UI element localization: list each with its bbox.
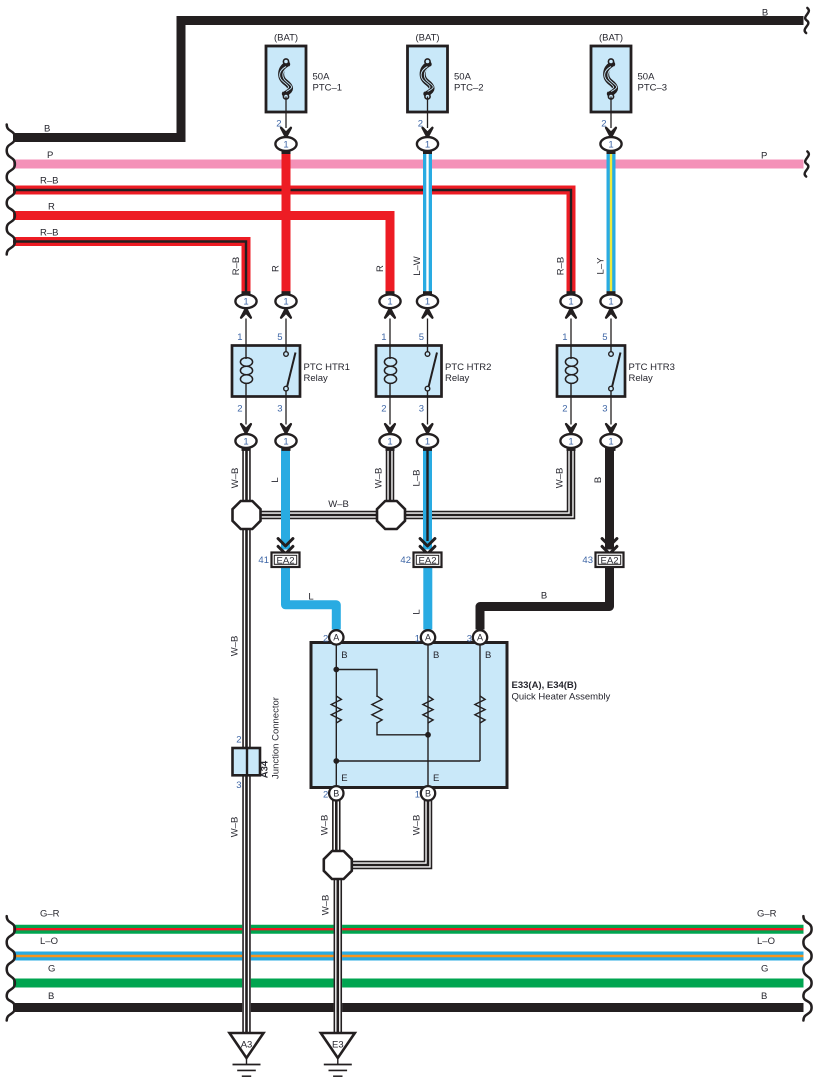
relay pin 2 label below at x=571.0	[562, 404, 567, 415]
fuse 50A PTC-1	[266, 46, 306, 112]
connector EA2-42	[414, 539, 442, 567]
svg-text:(BAT): (BAT)	[599, 33, 623, 44]
svg-text:Relay: Relay	[629, 373, 654, 384]
wire R-B bus 2 (to relay1 pin1)	[13, 242, 246, 296]
svg-text:E3: E3	[332, 1040, 344, 1051]
svg-text:P: P	[761, 151, 767, 162]
wire L-B relay2 pin3 to EA2-42	[423, 448, 432, 550]
svg-text:1: 1	[608, 139, 613, 150]
heater name label	[512, 680, 611, 703]
wire P bus	[13, 160, 804, 169]
svg-text:R–B: R–B	[231, 257, 242, 275]
connector ellipse 1 at x=571.0 below relay	[560, 397, 581, 451]
svg-text:L–O: L–O	[40, 936, 58, 947]
wire W-B relay1 pin2 to junction J1	[243, 448, 250, 502]
svg-text:1: 1	[237, 332, 242, 343]
svg-text:A: A	[333, 633, 339, 643]
wire W-B heater 2(B) to junction J3	[333, 800, 340, 852]
svg-text:1: 1	[568, 297, 573, 308]
label L-O right	[757, 936, 775, 947]
connector EA2-41	[272, 539, 300, 567]
label W-B below A34	[229, 817, 240, 838]
connector 1(A)	[421, 630, 435, 644]
heater internal wire from 3(A)	[479, 643, 481, 762]
label W-B octagon link	[328, 499, 349, 510]
wire G bus	[13, 979, 804, 988]
label B relay3 pin3	[593, 477, 604, 483]
connector ellipse 1 below fuse PTC-1	[275, 137, 296, 151]
svg-text:3: 3	[419, 404, 424, 415]
junction J2 (octagon)	[377, 501, 405, 529]
wire L relay1 pin3 to EA2-41 and heater 2(A)	[286, 448, 337, 630]
svg-text:E: E	[433, 773, 439, 784]
label W-B relay2 pin2	[374, 468, 385, 489]
svg-text:1: 1	[568, 436, 573, 447]
connector 1(B)	[421, 786, 435, 800]
connector 2(B) number	[323, 789, 328, 800]
label G left	[48, 964, 55, 975]
svg-text:1: 1	[608, 436, 613, 447]
label L-W relay2 pin5	[412, 256, 423, 276]
svg-text:1: 1	[415, 789, 420, 800]
svg-text:1: 1	[243, 436, 248, 447]
label W-B heater 2(B)	[320, 815, 331, 836]
svg-text:1: 1	[381, 332, 386, 343]
svg-text:1: 1	[425, 297, 430, 308]
label R relay1 pin5	[270, 265, 281, 272]
svg-text:Junction Connector: Junction Connector	[271, 697, 282, 779]
svg-text:W–B: W–B	[320, 815, 331, 836]
svg-text:A34: A34	[260, 760, 271, 778]
junction J1 (octagon)	[233, 501, 261, 529]
svg-text:2: 2	[601, 118, 606, 129]
label B bottom left	[48, 991, 54, 1002]
connector ellipse 1 at x=390.0 above relay	[379, 291, 400, 346]
svg-text:A3: A3	[241, 1040, 253, 1051]
wire W-B heater 1(B) to junction J3	[353, 800, 432, 868]
connector 2(A)	[329, 630, 343, 644]
break symbol left bus stack	[7, 125, 15, 255]
label R-B relay3 pin1	[556, 257, 567, 275]
relay pin 5 label at x=611.0	[602, 332, 607, 343]
svg-text:L–W: L–W	[412, 256, 423, 276]
wire R fuse PTC-1 to relay1 pin5	[282, 151, 291, 295]
svg-text:43: 43	[582, 555, 593, 566]
svg-text:G–R: G–R	[757, 909, 777, 920]
svg-text:R: R	[375, 265, 386, 272]
svg-text:2: 2	[323, 633, 328, 644]
svg-text:A: A	[425, 633, 431, 643]
connector ellipse 1 below fuse PTC-2	[417, 137, 438, 151]
resistor 1	[331, 696, 341, 723]
fuse 50A PTC-2	[408, 46, 448, 112]
label L-B relay2 pin3	[412, 470, 423, 487]
label L EA2-42 out	[412, 609, 423, 614]
svg-text:B: B	[433, 650, 439, 661]
heater internal wire from 2(A)	[335, 643, 337, 788]
svg-text:L: L	[412, 609, 423, 614]
label R-B left 1	[40, 176, 58, 187]
svg-text:3: 3	[277, 404, 282, 415]
relay pin 2 label below at x=390.0	[381, 404, 386, 415]
label G-R left	[40, 909, 60, 920]
break symbol bottom-right bus stack	[803, 916, 811, 1020]
connector 1(A) number	[415, 633, 420, 644]
svg-text:R: R	[270, 265, 281, 272]
connector ellipse 1 at x=611.0 above relay	[600, 291, 621, 346]
svg-text:B: B	[593, 477, 604, 483]
connector ellipse 1 at x=390.0 below relay	[379, 397, 400, 451]
wire W-B relay2 pin2 to junction J2	[387, 448, 394, 502]
EA2 number 41	[258, 555, 269, 566]
node bottom-left	[333, 758, 339, 764]
connector ellipse 1 at x=246.0 below relay	[235, 397, 256, 451]
ground E3	[321, 1033, 355, 1076]
label R-B left 2	[40, 228, 58, 239]
svg-text:PTC HTR2: PTC HTR2	[445, 362, 491, 373]
pin 2 label fuse PTC-1	[276, 118, 281, 129]
label R left	[48, 202, 55, 213]
node 2A-branch	[333, 667, 339, 673]
svg-text:PTC–1: PTC–1	[313, 83, 343, 94]
relay pin 5 label at x=427.5	[419, 332, 424, 343]
resistor 2	[372, 696, 382, 723]
connector ellipse 1 at x=571.0 above relay	[560, 291, 581, 346]
svg-text:(BAT): (BAT)	[274, 33, 298, 44]
svg-text:B: B	[48, 991, 54, 1002]
connector 3(A)	[473, 630, 487, 644]
heater terminal B label x=336.3	[341, 650, 347, 661]
connector 2(B)	[329, 786, 343, 800]
svg-text:2: 2	[276, 118, 281, 129]
wire R bus (to relay2 pin1)	[13, 216, 390, 296]
wire R-B bus 1 (to relay3 pin1)	[13, 190, 571, 295]
svg-text:W–B: W–B	[229, 817, 240, 838]
junction J3 (octagon)	[324, 851, 352, 879]
resistor 4	[475, 696, 485, 723]
svg-text:3: 3	[467, 633, 472, 644]
relay pin 3 label below at x=611.0	[602, 404, 607, 415]
wire W-B junction J1 down through A34 to ground A3	[243, 529, 250, 1037]
wire L-O bus	[13, 952, 804, 961]
svg-text:B: B	[425, 789, 431, 799]
connector ellipse 1 at x=246.0 above relay	[235, 291, 256, 346]
svg-text:EA2: EA2	[601, 555, 619, 566]
svg-text:B: B	[762, 8, 768, 19]
svg-text:2: 2	[562, 404, 567, 415]
connector ellipse 1 at x=286.0 above relay	[275, 291, 296, 346]
svg-text:PTC–3: PTC–3	[638, 83, 668, 94]
svg-text:Relay: Relay	[304, 373, 329, 384]
wire L-Y fuse PTC-3 to relay3 pin5	[607, 151, 616, 295]
relay pin 1 label at x=571.0	[562, 332, 567, 343]
pin 2 label fuse PTC-3	[601, 118, 606, 129]
svg-text:1: 1	[283, 297, 288, 308]
relay pin 5 label at x=286.0	[277, 332, 282, 343]
heater terminal E label x=428.0	[433, 773, 439, 784]
svg-text:3: 3	[602, 404, 607, 415]
svg-text:L–O: L–O	[757, 936, 775, 947]
heater internal wire from 1(A)	[427, 643, 429, 788]
EA2 number 43	[582, 555, 593, 566]
wire W-B relay3 pin2 to junction J2	[406, 448, 575, 518]
svg-text:L–Y: L–Y	[596, 257, 607, 275]
fuse 50A PTC-3	[591, 46, 631, 112]
break symbol right P	[805, 151, 809, 176]
fuse PTC-3 value label	[638, 72, 668, 94]
junction connector label	[271, 697, 282, 779]
break symbol bottom-left bus stack	[7, 916, 15, 1020]
connector ellipse 1 at x=427.5 below relay	[417, 397, 438, 451]
relay pin 1 label at x=246.0	[237, 332, 242, 343]
relay PTC HTR2 label	[445, 362, 491, 384]
relay U1 PTC HTR1	[232, 346, 300, 397]
label W-B relay1 pin2	[230, 468, 241, 489]
svg-text:5: 5	[602, 332, 607, 343]
connector ellipse 1 at x=286.0 below relay	[275, 397, 296, 451]
fuse PTC-1 pin 2 lead	[281, 97, 291, 155]
label L-Y relay3 pin5	[596, 257, 607, 275]
svg-text:5: 5	[419, 332, 424, 343]
svg-text:1: 1	[283, 139, 288, 150]
label P right	[761, 151, 767, 162]
fuse PTC-3 pin 2 lead	[606, 97, 616, 155]
quick heater assembly E33(A)/E34(B) box	[311, 643, 507, 788]
svg-text:(BAT): (BAT)	[415, 33, 439, 44]
junction connector A34	[233, 748, 261, 775]
label L relay1 pin3	[270, 477, 281, 482]
svg-text:1: 1	[562, 332, 567, 343]
label W-B to E3	[320, 895, 331, 916]
A34 pin 2 label	[236, 735, 241, 746]
svg-text:B: B	[341, 650, 347, 661]
heater terminal B label x=480.0	[485, 650, 491, 661]
svg-text:2: 2	[323, 789, 328, 800]
svg-text:W–B: W–B	[230, 468, 241, 489]
fuse PTC-2 value label	[454, 72, 484, 94]
svg-text:Relay: Relay	[445, 373, 470, 384]
svg-text:1: 1	[283, 436, 288, 447]
svg-text:E: E	[341, 773, 347, 784]
connector 1(B) number	[415, 789, 420, 800]
wire B battery feed (top bus)	[13, 21, 804, 138]
label B heater feed	[541, 590, 547, 601]
connector ellipse 1 at x=427.5 above relay	[417, 291, 438, 346]
label W-B heater 1(B)	[411, 815, 422, 836]
heater terminal E label x=336.3	[341, 773, 347, 784]
heater terminal B label x=428.0	[433, 650, 439, 661]
wire W-B junction J3 to ground E3	[334, 879, 341, 1037]
A34 pin 3 label	[236, 780, 241, 791]
ground A3	[230, 1033, 264, 1076]
svg-text:1: 1	[387, 436, 392, 447]
svg-text:1: 1	[425, 139, 430, 150]
fuse PTC-1 (BAT) label	[274, 33, 298, 44]
svg-text:R–B: R–B	[40, 228, 58, 239]
label L heater feed	[308, 591, 313, 602]
svg-text:B: B	[333, 789, 339, 799]
label L-O left	[40, 936, 58, 947]
svg-text:42: 42	[400, 555, 411, 566]
svg-text:W–B: W–B	[555, 468, 566, 489]
wire L EA2-42 to heater 1(A)	[423, 566, 432, 630]
connector ellipse 1 at x=611.0 below relay	[600, 397, 621, 451]
A34 name label	[260, 760, 271, 778]
label R relay2 pin1	[375, 265, 386, 272]
svg-text:1: 1	[415, 633, 420, 644]
svg-text:EA2: EA2	[277, 555, 295, 566]
label W-B relay3 pin2	[555, 468, 566, 489]
svg-text:G–R: G–R	[40, 909, 60, 920]
svg-text:B: B	[541, 590, 547, 601]
resistor 3	[423, 696, 433, 723]
svg-text:L–B: L–B	[412, 470, 423, 487]
svg-text:R: R	[48, 202, 55, 213]
svg-text:1: 1	[387, 297, 392, 308]
connector ellipse 1 below fuse PTC-3	[600, 137, 621, 151]
svg-text:1: 1	[608, 297, 613, 308]
svg-text:50A: 50A	[454, 72, 472, 83]
svg-text:A: A	[477, 633, 483, 643]
svg-text:1: 1	[425, 436, 430, 447]
connector 3(A) number	[467, 633, 472, 644]
svg-text:B: B	[485, 650, 491, 661]
connector 2(A) number	[323, 633, 328, 644]
svg-text:41: 41	[258, 555, 269, 566]
fuse PTC-1 value label	[313, 72, 343, 94]
label G right	[761, 964, 768, 975]
relay U3 PTC HTR3	[557, 346, 625, 397]
svg-text:3: 3	[236, 780, 241, 791]
heater internal branch to resistor 2	[336, 670, 428, 735]
label G-R right	[757, 909, 777, 920]
wire G-R bus	[13, 925, 804, 934]
svg-text:R–B: R–B	[40, 176, 58, 187]
svg-text:B: B	[761, 991, 767, 1002]
label B left bus	[44, 124, 50, 135]
relay pin 1 label at x=390.0	[381, 332, 386, 343]
heater internal bottom bar	[336, 760, 480, 762]
svg-text:50A: 50A	[313, 72, 331, 83]
svg-text:G: G	[761, 964, 768, 975]
label R-B relay1 pin1	[231, 257, 242, 275]
relay pin 3 label below at x=286.0	[277, 404, 282, 415]
svg-text:PTC–2: PTC–2	[454, 83, 484, 94]
relay PTC HTR1 label	[304, 362, 350, 384]
svg-text:1: 1	[243, 297, 248, 308]
svg-text:2: 2	[236, 735, 241, 746]
label B top-right	[762, 8, 768, 19]
connector EA2-43	[596, 539, 624, 567]
svg-text:2: 2	[237, 404, 242, 415]
svg-text:B: B	[44, 124, 50, 135]
svg-text:L: L	[270, 477, 281, 482]
svg-text:EA2: EA2	[419, 555, 437, 566]
label W-B above A34	[229, 636, 240, 657]
fuse PTC-3 (BAT) label	[599, 33, 623, 44]
svg-text:W–B: W–B	[411, 815, 422, 836]
svg-text:W–B: W–B	[374, 468, 385, 489]
svg-text:W–B: W–B	[328, 499, 349, 510]
svg-text:50A: 50A	[638, 72, 656, 83]
svg-text:PTC HTR3: PTC HTR3	[629, 362, 675, 373]
relay PTC HTR3 label	[629, 362, 675, 384]
svg-text:P: P	[47, 150, 53, 161]
svg-text:G: G	[48, 964, 55, 975]
pin 2 label fuse PTC-2	[418, 118, 423, 129]
svg-text:E33(A), E34(B): E33(A), E34(B)	[512, 680, 577, 691]
fuse PTC-2 pin 2 lead	[423, 97, 433, 155]
label B bottom right	[761, 991, 767, 1002]
svg-text:2: 2	[381, 404, 386, 415]
wire B relay3 pin3 to EA2-43 and heater 3(A)	[480, 448, 610, 630]
svg-text:Quick Heater Assembly: Quick Heater Assembly	[512, 692, 611, 703]
fuse PTC-2 (BAT) label	[415, 33, 439, 44]
svg-text:5: 5	[277, 332, 282, 343]
relay pin 3 label below at x=427.5	[419, 404, 424, 415]
svg-text:W–B: W–B	[229, 636, 240, 657]
svg-text:R–B: R–B	[556, 257, 567, 275]
wire B ground bus	[13, 1003, 804, 1012]
label P left	[47, 150, 53, 161]
svg-text:2: 2	[418, 118, 423, 129]
break symbol top-right B	[805, 8, 809, 33]
node resistor2/3	[425, 732, 431, 738]
svg-text:PTC HTR1: PTC HTR1	[304, 362, 350, 373]
EA2 number 42	[400, 555, 411, 566]
svg-text:W–B: W–B	[320, 895, 331, 916]
relay pin 2 label below at x=246.0	[237, 404, 242, 415]
wire W-B junction J1 to junction J2	[260, 512, 377, 519]
wire L-W fuse PTC-2 to relay2 pin5	[423, 151, 432, 295]
svg-text:L: L	[308, 591, 313, 602]
relay U2 PTC HTR2	[376, 346, 442, 397]
